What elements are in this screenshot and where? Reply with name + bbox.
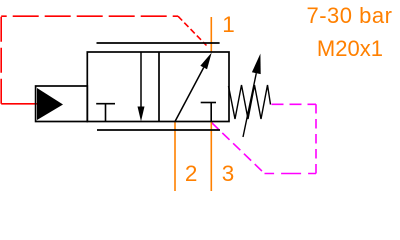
value label 7-30 bar xyxy=(307,5,393,27)
pilot line (magenta dashed) from port 3 to spring xyxy=(212,104,317,173)
position divider xyxy=(158,52,160,122)
flow arrow diagonal (right position) xyxy=(175,53,212,122)
spring (adjustable) xyxy=(229,85,271,119)
pilot line (red dashed) from pilot triangle to port 1 xyxy=(1,16,206,104)
label port 1 xyxy=(222,14,235,37)
wire magenta vertical right xyxy=(315,104,317,173)
flow arrow down (left position) xyxy=(138,52,145,121)
wire red vertical left xyxy=(0,16,2,104)
value label M20x1 xyxy=(317,38,383,60)
port 3 line (orange) xyxy=(210,122,212,192)
wire red horizontal top xyxy=(1,15,178,17)
blocked port T (left position) xyxy=(96,104,115,122)
pilot actuator triangle xyxy=(37,88,63,120)
label port 3 xyxy=(222,163,235,186)
valve body (2-position envelope) xyxy=(87,52,229,122)
wire magenta horizontal bottom xyxy=(265,173,317,175)
blocked port T (right position) xyxy=(201,103,216,122)
label port 2 xyxy=(185,163,198,186)
wire magenta horizontal to spring xyxy=(272,103,317,105)
wire magenta diagonal from port 3 xyxy=(212,123,265,174)
wire red diagonal to port 1 xyxy=(178,16,207,45)
housing line bottom xyxy=(97,129,220,131)
adjustment arrow through spring xyxy=(243,54,261,137)
port 1 line (orange) xyxy=(210,17,212,52)
port 2 line (orange) xyxy=(174,122,176,192)
housing line top xyxy=(97,42,220,44)
wire red horizontal to triangle xyxy=(1,103,37,105)
pilot actuator box xyxy=(36,86,88,122)
